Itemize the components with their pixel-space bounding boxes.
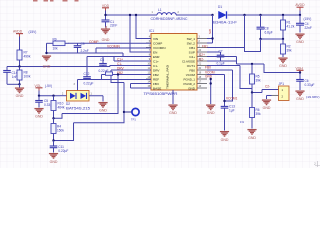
capacitor C4 — [296, 15, 312, 33]
svg-text:464k: 464k — [58, 106, 65, 110]
svg-text:C2-: C2- — [265, 84, 270, 88]
resistor R3 — [102, 72, 113, 80]
wire D2 anode — [60, 95, 67, 97]
svg-text:FB0: FB0 — [205, 66, 211, 70]
wire C1- long net — [7, 66, 151, 67]
wire DRV net — [54, 70, 152, 141]
svg-text:TP1: TP1 — [131, 118, 136, 122]
svg-text:C1-: C1- — [117, 62, 122, 66]
wire BASE — [131, 87, 152, 89]
svg-text:41.2k: 41.2k — [287, 25, 295, 29]
wire VGH feed — [237, 64, 301, 79]
ground below R8 — [15, 84, 24, 98]
wire EN vertical — [130, 15, 151, 52]
clipped red text at top edge — [33, 0, 79, 2]
svg-text:GND: GND — [296, 40, 304, 44]
svg-text:C2-: C2- — [199, 57, 204, 61]
resistor R2 — [281, 39, 293, 57]
svg-text:0.22µF: 0.22µF — [58, 149, 68, 153]
svg-text:10k: 10k — [53, 47, 59, 51]
svg-text:GND: GND — [296, 97, 304, 101]
wire SUP — [207, 51, 221, 53]
ground under R6 — [247, 130, 256, 140]
IC pin names left column — [153, 37, 166, 91]
svg-text:PGND_1: PGND_1 — [184, 77, 196, 81]
wire VCOMIN — [96, 47, 151, 49]
diode D1 — [213, 5, 237, 24]
svg-text:EN: EN — [153, 50, 157, 54]
svg-text:D1: D1 — [218, 5, 222, 9]
resistor R9 — [47, 37, 69, 50]
svg-text:GND: GND — [99, 109, 107, 113]
svg-text:C12: C12 — [84, 72, 90, 76]
capacitor C8 — [257, 15, 273, 39]
svg-text:VCOM: VCOM — [186, 73, 196, 77]
svg-text:B340A-13-F: B340A-13-F — [213, 20, 237, 24]
junction VGL/C5 — [38, 95, 40, 97]
wire COMP — [68, 42, 151, 44]
junction divider — [259, 38, 284, 40]
svg-text:0.22µF: 0.22µF — [84, 82, 94, 86]
svg-text:GND: GND — [16, 94, 24, 98]
junction VIN rail — [135, 14, 137, 16]
svg-text:2.2nF: 2.2nF — [81, 49, 89, 53]
wire thermal pad — [172, 90, 174, 104]
svg-text:SUP: SUP — [189, 50, 195, 54]
svg-text:GND: GND — [188, 86, 196, 90]
wire JP1 pin2 to gnd — [267, 96, 272, 100]
capacitor C13 — [221, 105, 235, 131]
wire comp gnd bus — [47, 43, 124, 56]
capacitor C3 — [99, 57, 109, 74]
test point TP1 — [124, 108, 139, 121]
junction VCOM/C13 — [223, 100, 225, 102]
wire SW net — [207, 15, 213, 43]
svg-text:(-5V): (-5V) — [45, 84, 52, 88]
wire VIN vertical — [136, 15, 151, 39]
power VDD — [102, 4, 110, 11]
svg-text:FB1: FB1 — [202, 44, 208, 48]
ground under C5 — [34, 109, 43, 119]
svg-text:IC1: IC1 — [149, 29, 154, 33]
svg-text:(15V): (15V) — [29, 30, 37, 34]
ground under C1 — [101, 29, 110, 42]
IC pin numbers right — [199, 37, 202, 88]
power AVDD right — [295, 3, 311, 21]
svg-text:SW: SW — [208, 29, 212, 34]
svg-text:39k: 39k — [287, 49, 293, 53]
svg-text:39k: 39k — [256, 79, 262, 83]
connector JP1 — [272, 82, 290, 100]
svg-text:C1-MODE: C1-MODE — [182, 59, 195, 63]
svg-text:BASE: BASE — [153, 86, 161, 90]
svg-text:GND: GND — [248, 136, 256, 140]
svg-text:150k: 150k — [57, 129, 64, 133]
svg-text:C2+: C2+ — [199, 53, 205, 57]
junction dots AVDD rail — [243, 14, 301, 16]
transistor Q1 : dual diode D2 — [62, 91, 93, 111]
wire ENR / staple — [87, 57, 151, 78]
svg-text:SW_1: SW_1 — [187, 37, 196, 41]
svg-text:VCOMIN: VCOMIN — [153, 46, 166, 50]
ground under R2 — [278, 58, 287, 68]
resistor R4 — [51, 118, 64, 140]
junction TP tap — [123, 111, 125, 113]
junction bottom — [18, 83, 20, 85]
junction VDD/C1 — [104, 14, 106, 16]
ground under C13 — [220, 132, 229, 142]
capacitor C6 — [296, 79, 314, 90]
svg-text:COMP: COMP — [153, 41, 162, 45]
wire C2- — [207, 57, 237, 65]
IC pin stubs left — [146, 39, 151, 89]
wire OUT1 net — [207, 66, 279, 93]
svg-text:FB2: FB2 — [153, 73, 159, 77]
svg-text:1nF: 1nF — [12, 75, 18, 79]
svg-text:100k: 100k — [24, 74, 31, 78]
svg-text:COMP: COMP — [89, 40, 99, 44]
svg-text:C1-: C1- — [153, 64, 158, 68]
svg-text:C1+: C1+ — [153, 59, 159, 63]
svg-text:R9: R9 — [53, 37, 57, 41]
capacitor C5 — [35, 96, 54, 108]
ground JP1 — [262, 100, 271, 110]
resistor R5 — [250, 64, 262, 93]
svg-text:THERMAL_PAD: THERMAL_PAD — [166, 65, 170, 89]
svg-text:1%: 1% — [240, 120, 245, 124]
svg-text:C2+: C2+ — [189, 55, 195, 59]
svg-text:2: 2 — [314, 162, 316, 166]
IC pin stubs right — [197, 39, 207, 89]
wire FB3 — [131, 84, 152, 89]
junction SW tap — [211, 14, 213, 16]
ground comp — [42, 56, 51, 68]
svg-text:SW_2: SW_2 — [187, 41, 196, 45]
svg-text:GND: GND — [207, 111, 215, 115]
ground under C6 — [295, 91, 304, 101]
svg-text:22nF: 22nF — [305, 26, 312, 30]
resistor R8 — [17, 67, 31, 85]
svg-text:1µF: 1µF — [229, 109, 235, 113]
svg-text:OUT1: OUT1 — [187, 64, 196, 68]
svg-text:0.33µF: 0.33µF — [305, 83, 315, 87]
wire FB0 net — [207, 70, 233, 101]
resistor R6 — [240, 93, 261, 129]
wire R8/C14 bottom — [7, 83, 20, 85]
svg-text:22nF: 22nF — [110, 23, 117, 27]
wire PGND net — [210, 79, 212, 104]
svg-text:GND: GND — [102, 38, 110, 42]
svg-text:C3: C3 — [100, 58, 104, 62]
wire VCOM net — [207, 75, 225, 107]
capacitor C1 — [102, 15, 118, 28]
junction R5 top — [251, 63, 253, 65]
svg-text:C9: C9 — [81, 42, 85, 46]
svg-text:PGND_2: PGND_2 — [184, 82, 196, 86]
inductor L1 — [151, 8, 189, 21]
svg-text:ENR: ENR — [153, 55, 160, 59]
svg-text:GND: GND — [263, 106, 271, 110]
IC pin names right column — [182, 37, 196, 91]
ground PGND — [206, 105, 215, 115]
junction VGL/R10 — [52, 95, 54, 97]
wire FB1 — [207, 15, 261, 52]
power VGL — [35, 84, 53, 91]
svg-text:FB1: FB1 — [189, 46, 195, 50]
resistor R7 — [17, 37, 31, 67]
ground D2 — [98, 103, 107, 113]
sheet corner mark — [314, 161, 320, 167]
capacitor C14 — [3, 67, 17, 85]
capacitor C7 — [217, 49, 225, 65]
IC pin numbers left — [147, 37, 150, 88]
svg-text:6.8µF: 6.8µF — [265, 31, 273, 35]
junction R7/R8 — [18, 65, 20, 67]
op-amp U1 : main IC TPS65105PWP body — [144, 29, 198, 96]
ground thermal pad — [168, 105, 177, 115]
svg-text:GND: GND — [43, 64, 51, 68]
junction FB2 — [117, 73, 119, 75]
wire FB2 net — [54, 75, 152, 119]
junction SW_1 — [211, 37, 213, 39]
ground under C4 — [295, 34, 304, 44]
svg-text:499k: 499k — [24, 55, 31, 59]
capacitor C9 — [74, 42, 89, 53]
junction R5/R6/JP1 — [251, 91, 253, 93]
svg-text:FB3: FB3 — [153, 82, 159, 86]
svg-text:GND: GND — [169, 111, 177, 115]
junction comp gnd — [45, 52, 47, 54]
wire REF / C12 bottom net — [78, 80, 152, 91]
wire VDD rail — [106, 11, 301, 16]
svg-text:BAT54S,215: BAT54S,215 — [66, 106, 90, 110]
svg-text:GND: GND — [50, 160, 58, 164]
junction VGH — [299, 71, 301, 73]
svg-text:GND: GND — [221, 138, 229, 142]
junction EN rail — [129, 14, 131, 16]
svg-text:C1+: C1+ — [117, 57, 123, 61]
svg-text:GND: GND — [279, 64, 287, 68]
capacitor C11 — [50, 141, 69, 154]
ground mid (under C1 column) — [105, 26, 107, 29]
power AVDD left — [13, 30, 36, 37]
svg-text:GND: GND — [35, 115, 43, 119]
ground under C11 — [49, 154, 58, 164]
svg-text:DRV: DRV — [153, 68, 160, 72]
junction R10/R4 — [52, 117, 54, 119]
svg-text:(15V): (15V) — [304, 17, 312, 21]
svg-text:39k: 39k — [256, 112, 262, 116]
junction PGND_2 — [210, 82, 212, 84]
wire VGL net — [39, 91, 60, 96]
resistor R1 — [281, 15, 295, 39]
svg-text:VCOMIN: VCOMIN — [107, 45, 120, 49]
svg-text:GND: GND — [205, 75, 213, 79]
svg-text:FB0: FB0 — [189, 68, 195, 72]
svg-text:VCOM1: VCOM1 — [226, 96, 238, 100]
capacitor C12 — [83, 72, 93, 86]
wire D2 cathode to gnd — [89, 96, 103, 102]
svg-text:REF: REF — [153, 77, 159, 81]
junction R4 bottom — [52, 139, 54, 141]
svg-text:CDRH6D28NP-4R2NC: CDRH6D28NP-4R2NC — [151, 17, 189, 21]
wire FB1 divider mid rail — [261, 38, 284, 40]
resistor R10 — [51, 96, 65, 119]
svg-text:(19.98V): (19.98V) — [306, 95, 320, 99]
svg-text:C7: C7 — [219, 49, 223, 53]
junction PGND_1 — [210, 78, 212, 80]
svg-text:VIN: VIN — [153, 37, 158, 41]
wire C2+ — [207, 56, 237, 58]
power VGH — [296, 66, 304, 73]
svg-text:L1: L1 — [158, 8, 162, 12]
